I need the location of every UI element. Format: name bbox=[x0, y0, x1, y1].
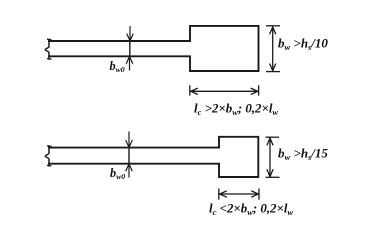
wire: top wall web outline (two horizontal lines) bbox=[49, 41, 190, 56]
wire: down arrow onto top wall line (b_w0 dimension, top) bbox=[127, 26, 134, 41]
wire: up arrow onto bottom wall line (b_w0 dimension, bottom) bbox=[126, 164, 133, 178]
node: wall break symbol (left end, top diagram) bbox=[45, 40, 49, 60]
wire: bottom horizontal dimension l_c (bottom diagram) bbox=[219, 188, 259, 199]
wire: down arrow onto top wall line (b_w0 dimension, bottom) bbox=[126, 132, 133, 148]
node: flange rectangle (top diagram boundary element) bbox=[190, 26, 259, 71]
wire: bottom horizontal dimension l_c (top diagram) bbox=[190, 85, 259, 95]
node: flange rectangle (bottom diagram boundary element) bbox=[219, 137, 258, 177]
node: wall break symbol (left end, bottom diagram) bbox=[45, 146, 49, 166]
wire: bottom wall web outline (two horizontal lines) bbox=[49, 148, 219, 164]
wire: up arrow onto bottom wall line (b_w0 dimension, top) bbox=[126, 57, 133, 71]
wire: right vertical dimension b_w (bottom diagram) bbox=[266, 137, 280, 177]
wire: section cut line through wall between arrow tips (bottom) bbox=[128, 148, 130, 164]
wire: right vertical dimension b_w (top diagram) bbox=[266, 26, 280, 72]
wire: section cut line through wall between arrow tips (top) bbox=[129, 41, 131, 56]
